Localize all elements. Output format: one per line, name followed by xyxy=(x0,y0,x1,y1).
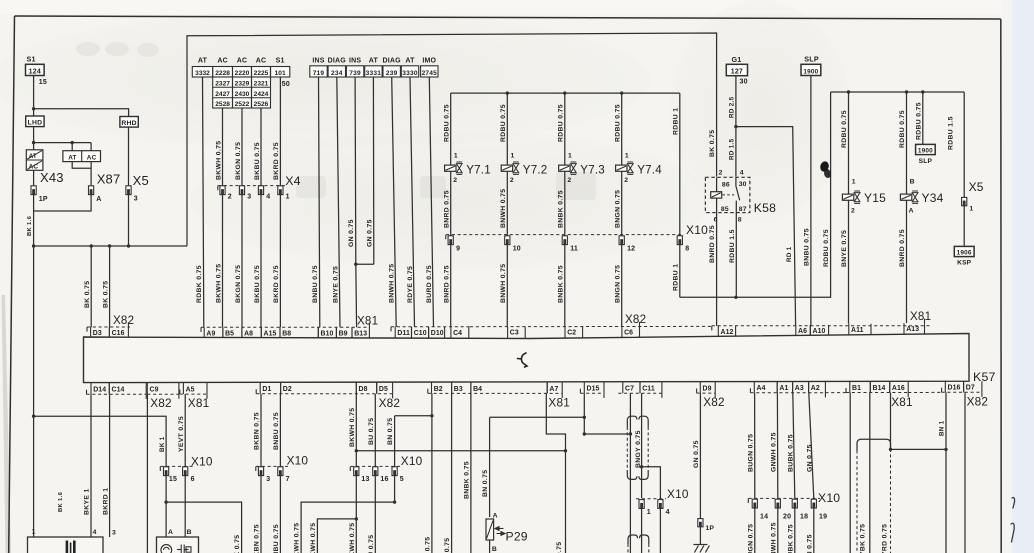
connector X4 dashed line xyxy=(218,185,286,187)
ECU pin C14 xyxy=(109,383,146,395)
faint bleed-through ghosts xyxy=(76,42,596,200)
svg-text:LHD: LHD xyxy=(28,119,43,126)
svg-text:B: B xyxy=(910,178,915,185)
wire under AC cell to X87 pin xyxy=(90,162,92,186)
wire branch right going down xyxy=(166,502,242,553)
svg-text:X81: X81 xyxy=(188,396,210,410)
svg-text:30: 30 xyxy=(740,79,748,86)
svg-text:S1: S1 xyxy=(276,58,285,65)
svg-text:D14: D14 xyxy=(93,387,106,394)
wire BKYE 1 from D14 to fuel pump unit xyxy=(90,394,92,537)
wire BNBU 0.75 from SLP to X81-A10 xyxy=(810,76,812,326)
svg-text:B: B xyxy=(187,529,192,536)
connector pin X10-1 xyxy=(639,500,644,509)
fuse S1 box 124 xyxy=(26,64,45,75)
svg-text:BK 1.6: BK 1.6 xyxy=(27,215,33,236)
svg-text:B10: B10 xyxy=(321,330,334,337)
svg-text:1P: 1P xyxy=(39,196,48,203)
svg-text:BKBU 0.75: BKBU 0.75 xyxy=(254,265,261,303)
svg-text:RDBU 1: RDBU 1 xyxy=(673,264,680,291)
connector row dashed line xyxy=(618,392,662,394)
svg-text:1900: 1900 xyxy=(918,147,933,154)
svg-text:X82: X82 xyxy=(625,313,646,326)
node RD split xyxy=(734,125,737,128)
svg-text:RDBU 1: RDBU 1 xyxy=(673,108,680,135)
svg-text:127: 127 xyxy=(731,69,743,76)
svg-text:BNBK 0.75: BNBK 0.75 xyxy=(558,190,565,228)
wire from B3 down xyxy=(451,393,453,553)
wire GN 0.75 from 739 xyxy=(354,77,357,264)
svg-text:1P: 1P xyxy=(705,525,714,532)
svg-text:BK 0.75: BK 0.75 xyxy=(444,538,451,553)
connector X10 dashed line (pins 3,7) xyxy=(256,465,288,467)
svg-text:BNRD 0.75: BNRD 0.75 xyxy=(443,190,450,228)
wire BNRD 0.75 from X10 to X82 xyxy=(450,245,452,328)
page border top xyxy=(15,16,1001,19)
wire X5-3 down to bus xyxy=(128,195,130,246)
svg-text:X4: X4 xyxy=(285,174,301,188)
svg-text:A: A xyxy=(493,513,498,520)
wire shield drain to BN 1 xyxy=(891,448,947,450)
svg-text:G1: G1 xyxy=(732,55,742,64)
pump motor symbol xyxy=(161,545,172,553)
wire from B2 down xyxy=(431,393,433,553)
svg-text:C10: C10 xyxy=(414,330,427,337)
wire BK 0.75 to X82-D3 xyxy=(90,246,92,327)
svg-text:BNRD 0.75: BNRD 0.75 xyxy=(443,265,450,303)
ECU pin A4 xyxy=(754,382,777,393)
svg-text:BKBU 0.75: BKBU 0.75 xyxy=(254,142,261,180)
ECU pin A10 xyxy=(810,325,828,335)
svg-text:1: 1 xyxy=(511,152,515,159)
svg-text:BKBN 0.75: BKBN 0.75 xyxy=(254,412,261,450)
wire link D15 to shielded cable xyxy=(584,433,630,435)
connector row dashed line xyxy=(201,326,370,328)
node junction C11 branch xyxy=(640,465,643,468)
wire BNBK 0.75 from Y7.3 to X10 xyxy=(564,171,566,236)
svg-text:50: 50 xyxy=(282,81,290,88)
connector X10 dashed line (pins 13,16,5) xyxy=(351,465,401,467)
svg-text:A6: A6 xyxy=(798,328,807,335)
svg-text:15: 15 xyxy=(169,476,177,483)
svg-text:A8: A8 xyxy=(244,330,253,337)
wire BNGN 0.75 from X10 to X82 xyxy=(621,245,623,328)
wire BNBK 0.75 from X10 to X82 xyxy=(564,245,566,328)
pump supply bus right xyxy=(831,91,965,93)
svg-text:GN 0.75: GN 0.75 xyxy=(806,534,813,553)
wire from A7 jog down xyxy=(546,393,565,553)
svg-text:D2: D2 xyxy=(283,386,292,393)
connector pin X4-1 xyxy=(278,186,283,195)
svg-text:87: 87 xyxy=(739,206,747,213)
ECU pin B3 xyxy=(452,382,471,393)
svg-text:739: 739 xyxy=(349,70,361,77)
injector Y7.4 xyxy=(616,152,663,183)
svg-text:SLP: SLP xyxy=(804,55,819,64)
connector row dashed line xyxy=(846,392,908,394)
wire branch left down xyxy=(317,519,356,553)
svg-text:15: 15 xyxy=(39,79,47,86)
connector row dashed line xyxy=(428,392,562,394)
connector pin X87-A xyxy=(89,186,94,195)
svg-text:2220: 2220 xyxy=(235,70,250,77)
svg-text:2329: 2329 xyxy=(235,80,250,87)
svg-text:RDYE 0.75: RDYE 0.75 xyxy=(407,266,414,303)
svg-text:3: 3 xyxy=(112,529,116,536)
svg-text:YEVT 0.75: YEVT 0.75 xyxy=(178,416,185,452)
wire from 719 to X81-B10 xyxy=(319,77,320,327)
svg-text:1: 1 xyxy=(852,178,856,185)
svg-text:B4: B4 xyxy=(473,386,482,393)
connector row dashed line xyxy=(391,326,470,328)
svg-text:BN 0.75: BN 0.75 xyxy=(387,418,394,445)
wire GN to X81-B13 xyxy=(355,264,358,327)
wire RD 1 branch to X81-A6 xyxy=(736,127,796,325)
svg-text:B3: B3 xyxy=(454,386,463,393)
pump capacitor symbol xyxy=(177,545,191,553)
wire RDBU 0.75 to Y34 xyxy=(906,92,908,195)
wire RDBU 1.5 to X5-1 xyxy=(963,92,965,197)
svg-text:BNRD 0.75: BNRD 0.75 xyxy=(709,225,716,263)
wire RDBU 0.75 to Y15 xyxy=(848,92,850,195)
wire BNRD 0.75 from Y34-A to X81-A13 xyxy=(906,200,908,323)
svg-text:4: 4 xyxy=(266,193,270,200)
svg-text:GN 0.75: GN 0.75 xyxy=(366,219,373,247)
ECU pin D7 xyxy=(964,381,982,392)
wire RDBU 1 from bus to X10-8 xyxy=(679,93,681,236)
svg-text:A1: A1 xyxy=(779,385,788,392)
wire BK 0.75 to X82-C16 xyxy=(109,246,111,327)
code boxes INS DIAG INS AT DIAG AT IMO xyxy=(310,66,327,77)
wire BK 1.6 from X43 pin xyxy=(33,195,35,246)
connector row dashed line xyxy=(712,325,930,327)
svg-text:KSP: KSP xyxy=(957,259,972,266)
svg-text:101: 101 xyxy=(275,70,286,77)
connector pin X5-1 xyxy=(962,197,967,205)
svg-text:A3: A3 xyxy=(795,385,804,392)
svg-text:BKGN 0.75: BKGN 0.75 xyxy=(235,265,242,303)
wire from A16 shield pin xyxy=(890,393,892,450)
wire below X10-4 xyxy=(659,508,661,553)
svg-text:RHD: RHD xyxy=(121,120,136,127)
wire YRD 0.75 from B14 xyxy=(869,393,871,553)
wire RDBU 0.75 to injector Y7.2 xyxy=(506,93,508,165)
svg-text:3: 3 xyxy=(247,193,251,200)
svg-text:BKWH 0.75: BKWH 0.75 xyxy=(215,141,222,180)
connector row dashed line xyxy=(580,392,604,394)
wire link to ignition module xyxy=(356,450,565,452)
wire BNWH 0.75 from Y7.2 to X10 xyxy=(506,171,508,236)
wire BUBK 0.75 to X10-18 xyxy=(793,393,795,499)
svg-text:BU 0.75: BU 0.75 xyxy=(368,418,375,445)
svg-text:RD 2.5: RD 2.5 xyxy=(729,96,736,118)
connector row dashed line xyxy=(825,392,846,394)
svg-text:BURD 0.75: BURD 0.75 xyxy=(426,265,433,303)
svg-text:B2: B2 xyxy=(434,386,443,393)
ECU pin A5 xyxy=(183,382,207,394)
svg-text:BKWH 0.75: BKWH 0.75 xyxy=(349,523,356,553)
svg-text:D7: D7 xyxy=(966,385,975,392)
wire BUGN 0.75 to X10-14 xyxy=(754,393,756,499)
svg-text:16: 16 xyxy=(380,476,388,483)
wire continues down left to fuel pump area xyxy=(33,246,35,416)
ECU pin A6 xyxy=(796,325,811,335)
ground symbol xyxy=(693,545,709,553)
svg-text:234: 234 xyxy=(331,70,343,77)
ECU pin D11 xyxy=(395,327,411,338)
wire below X10-19 xyxy=(813,508,815,553)
wire to X87 variant box xyxy=(34,142,92,144)
svg-text:BN 0.75: BN 0.75 xyxy=(425,537,432,553)
svg-text:BKYE 1: BKYE 1 xyxy=(84,488,91,515)
connector pin X10-4 xyxy=(658,500,663,509)
svg-text:BK 1.6: BK 1.6 xyxy=(58,491,64,512)
connector pin X4-3 xyxy=(239,186,244,195)
svg-text:86: 86 xyxy=(722,182,730,189)
connector row dashed line xyxy=(750,392,825,394)
svg-text:A5: A5 xyxy=(186,387,195,394)
svg-text:2: 2 xyxy=(719,169,723,176)
wire BKWH 0.75 from D8 to X10-13 xyxy=(355,394,357,467)
ECU pin B13 xyxy=(352,327,369,338)
connector row dashed line xyxy=(908,391,941,393)
wire to KSP box xyxy=(963,206,965,247)
relay K58 xyxy=(705,169,750,223)
scribble artifact inside K57 xyxy=(518,353,528,367)
svg-text:RDBU 0.75: RDBU 0.75 xyxy=(443,104,450,142)
wire LHD down xyxy=(33,127,35,150)
svg-text:18: 18 xyxy=(800,514,808,521)
svg-text:BK 0.75: BK 0.75 xyxy=(234,535,241,553)
svg-text:RDBU 1.5: RDBU 1.5 xyxy=(948,116,955,150)
svg-text:BNBK 0.75: BNBK 0.75 xyxy=(464,461,471,499)
svg-text:RDBU 0.75: RDBU 0.75 xyxy=(841,110,848,148)
wire RDBU 0.75 to SLP 1900 box xyxy=(922,92,924,144)
wire RDBU 0.75 to injector Y7.4 xyxy=(621,93,623,165)
svg-text:C9: C9 xyxy=(150,387,159,394)
svg-text:BNWH 0.75: BNWH 0.75 xyxy=(500,264,507,303)
svg-text:RDBU 0.75: RDBU 0.75 xyxy=(915,102,922,140)
svg-text:2526: 2526 xyxy=(254,101,269,108)
svg-text:BK 0.75: BK 0.75 xyxy=(102,281,109,308)
svg-text:3: 3 xyxy=(134,196,138,203)
connector row dashed line xyxy=(87,326,130,328)
ECU pin B14 xyxy=(870,381,889,392)
shield screen resume below xyxy=(628,535,649,544)
svg-text:2: 2 xyxy=(851,207,855,214)
svg-text:GN 0.75: GN 0.75 xyxy=(348,219,355,247)
wire BNBU 0.75 from D2 to X10-7 xyxy=(279,394,281,467)
svg-text:YRD 0.75: YRD 0.75 xyxy=(881,524,888,553)
wire BNWH 0.75 from 239 to X81-D11 xyxy=(392,77,397,327)
svg-text:C2: C2 xyxy=(567,330,576,337)
wire RDYE 0.75 from 3330 to X81-C10 xyxy=(410,77,415,327)
svg-text:BKWH 0.75: BKWH 0.75 xyxy=(349,408,356,447)
svg-text:19: 19 xyxy=(819,514,827,521)
wire BNBK 0.75 from B4 down xyxy=(470,393,472,553)
svg-text:RD 1.5: RD 1.5 xyxy=(729,138,736,160)
svg-text:X81: X81 xyxy=(548,396,570,410)
svg-text:239: 239 xyxy=(386,70,398,77)
connector pin 1P xyxy=(698,519,703,527)
wire from D7 down xyxy=(964,392,966,553)
wire below X10-7 xyxy=(279,476,281,553)
connector pin X10-11 xyxy=(562,236,567,245)
ECU pin A12 xyxy=(718,326,735,337)
svg-text:AT: AT xyxy=(198,58,208,65)
svg-text:X82: X82 xyxy=(113,314,134,327)
ECU pin A13 xyxy=(904,323,925,334)
ECU pin A9 xyxy=(204,327,223,337)
svg-text:2: 2 xyxy=(510,177,514,184)
ECU pin C4 xyxy=(451,327,469,338)
svg-text:DIAG: DIAG xyxy=(328,58,347,65)
wire BKBU 0.75 from table to X4 pin xyxy=(260,108,262,186)
connector pin X10-19 xyxy=(811,499,816,508)
svg-text:1: 1 xyxy=(454,152,458,159)
wire below X10-16 xyxy=(374,476,376,553)
svg-text:4: 4 xyxy=(666,509,670,516)
svg-text:A9: A9 xyxy=(206,330,215,337)
wire RDBU 0.75 to injector Y7.3 xyxy=(564,93,566,165)
svg-text:B14: B14 xyxy=(873,385,886,392)
injector Y7.2 xyxy=(501,152,547,183)
svg-text:Y7.2: Y7.2 xyxy=(523,163,548,176)
ECU pin D2 xyxy=(281,382,357,394)
svg-text:BKRD 0.75: BKRD 0.75 xyxy=(273,265,280,303)
ground-side bus horizontal xyxy=(34,245,187,247)
svg-text:1: 1 xyxy=(969,206,973,213)
wire RD 2.5 from G1 xyxy=(735,76,737,178)
ECU pin C16 xyxy=(109,327,128,337)
svg-text:X5: X5 xyxy=(969,180,984,194)
svg-text:AC: AC xyxy=(256,58,267,65)
svg-text:5: 5 xyxy=(400,476,404,483)
wire BK 1 branch to X10-15 xyxy=(34,416,167,466)
svg-text:BUBK 0.75: BUBK 0.75 xyxy=(787,434,794,472)
svg-text:A12: A12 xyxy=(721,329,734,336)
svg-text:14: 14 xyxy=(760,514,768,521)
ECU pin A11 xyxy=(849,324,871,335)
connector row dashed line xyxy=(470,325,712,327)
ECU pin B10 xyxy=(318,327,336,338)
svg-text:GNWH 0.75: GNWH 0.75 xyxy=(770,522,777,553)
connector pin X10-20 xyxy=(775,499,780,508)
svg-text:D10: D10 xyxy=(431,330,444,337)
svg-text:11: 11 xyxy=(570,245,578,252)
wire BKBU 0.75 from X4 to connector row xyxy=(260,195,262,328)
svg-text:BK 0.75: BK 0.75 xyxy=(556,542,563,553)
solenoid Y15 xyxy=(842,178,886,214)
svg-text:BKRD 1: BKRD 1 xyxy=(102,488,109,515)
svg-text:A7: A7 xyxy=(549,386,558,393)
wire RDBU 0.75 to injector Y7.1 xyxy=(450,93,452,165)
connector row dashed line xyxy=(942,391,982,393)
svg-text:IMO: IMO xyxy=(422,58,436,65)
ECU pin C2 xyxy=(565,327,583,339)
svg-text:A: A xyxy=(909,207,914,214)
svg-text:RDBU 0.75: RDBU 0.75 xyxy=(500,104,507,142)
wire BNRD 0.75 from K58-6 to X81-A12 xyxy=(716,213,718,326)
svg-text:2745: 2745 xyxy=(422,70,438,77)
svg-text:X81: X81 xyxy=(910,310,931,323)
svg-text:DIAG: DIAG xyxy=(383,58,402,65)
svg-text:X81: X81 xyxy=(891,395,913,409)
ECU pin C11 xyxy=(640,382,662,394)
svg-text:1900: 1900 xyxy=(803,68,818,75)
wire BURD 0.75 from 2745 to X81-D10 xyxy=(429,77,433,327)
svg-text:3330: 3330 xyxy=(402,70,418,77)
svg-text:X10: X10 xyxy=(686,223,708,237)
ECU pin A3 xyxy=(793,381,809,392)
svg-text:B1: B1 xyxy=(852,385,861,392)
ECU pin C7 xyxy=(623,382,640,393)
svg-text:BNBU 0.75: BNBU 0.75 xyxy=(273,412,280,450)
svg-text:BNWH 0.75: BNWH 0.75 xyxy=(500,189,507,228)
node junction at pump feed xyxy=(32,415,35,418)
svg-text:BUGN 0.75: BUGN 0.75 xyxy=(747,434,754,472)
node junction below X10-13 xyxy=(355,517,358,520)
connector row dashed line xyxy=(256,393,392,395)
temperature sensor P29 xyxy=(486,513,528,553)
svg-text:B9: B9 xyxy=(339,330,348,337)
svg-text:K57: K57 xyxy=(973,370,996,384)
svg-text:RDBU 0.75: RDBU 0.75 xyxy=(823,229,830,267)
connector pin X10-15 xyxy=(164,467,169,476)
svg-text:BN 1: BN 1 xyxy=(939,420,946,436)
wire BKGN 0.75 from X4 to connector row xyxy=(241,195,243,328)
wire BKGN 0.75 from table to X4 pin xyxy=(241,108,243,186)
connector row dashed line xyxy=(180,393,207,395)
right page edge blue strip xyxy=(1012,0,1034,553)
svg-text:C6: C6 xyxy=(624,330,633,337)
wire below X10-18 xyxy=(794,508,796,553)
wire YEVT 0.75 from A5 to X10-6 xyxy=(184,394,186,467)
wire GN 0.75 from D9 to pin 1P xyxy=(699,393,701,518)
connector pin X10-18 xyxy=(792,499,797,508)
svg-text:4: 4 xyxy=(93,529,97,536)
connector pin X10-7 xyxy=(278,467,283,476)
svg-text:AC: AC xyxy=(217,58,228,65)
svg-text:BNBK 0.75: BNBK 0.75 xyxy=(558,265,565,303)
connector pin X43-1P xyxy=(31,186,36,195)
svg-text:BNGY 0.75: BNGY 0.75 xyxy=(635,430,642,468)
wire below P29 xyxy=(489,540,491,553)
ECU pin A2 xyxy=(809,381,826,392)
svg-text:BK 1: BK 1 xyxy=(159,436,166,452)
svg-text:S1: S1 xyxy=(27,55,36,64)
connector pin X10-3 xyxy=(258,467,263,476)
svg-text:BK 0.75: BK 0.75 xyxy=(84,281,91,308)
ECU K57 body xyxy=(84,334,970,383)
wire from D15 down xyxy=(583,393,585,434)
svg-text:BUBK 0.75: BUBK 0.75 xyxy=(787,524,794,553)
svg-text:C14: C14 xyxy=(112,387,125,394)
svg-text:RDBU 1.5: RDBU 1.5 xyxy=(729,229,736,263)
wire BNGN 0.75 from Y7.4 to X10 xyxy=(621,171,623,236)
box LHD xyxy=(26,116,44,127)
connector pin X10-8 xyxy=(677,236,682,245)
svg-text:B5: B5 xyxy=(225,330,234,337)
ECU pin C9 xyxy=(147,382,179,394)
svg-text:8: 8 xyxy=(738,217,742,224)
svg-text:1: 1 xyxy=(286,193,290,200)
svg-text:1: 1 xyxy=(647,509,651,516)
shielded cable screen sides xyxy=(626,427,628,470)
wire BKWH 0.75 from table to X4 pin xyxy=(222,108,224,186)
svg-text:AT: AT xyxy=(68,154,76,161)
svg-text:12: 12 xyxy=(627,245,635,252)
